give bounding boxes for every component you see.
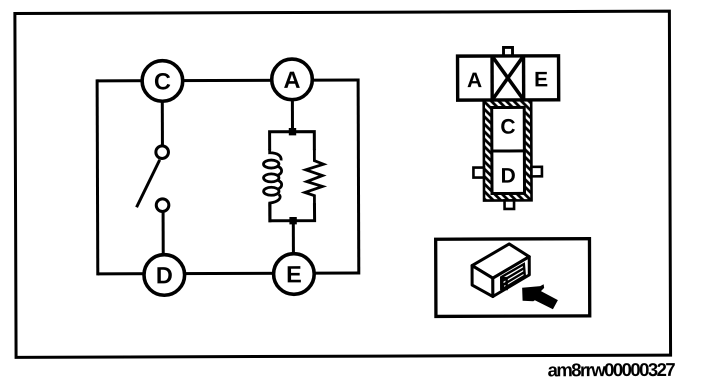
svg-text:C: C (500, 116, 515, 139)
connector tab right (531, 167, 542, 177)
svg-text:E: E (286, 261, 302, 287)
svg-text:D: D (156, 262, 173, 288)
switch S1 (136, 146, 169, 212)
connector housing top row (pins A / keyway / E) (458, 56, 559, 100)
wire: top segment C to A (loop top bar) (97, 78, 358, 82)
terminal C (142, 61, 183, 102)
wire: coil to bottom bar (268, 202, 271, 222)
wire: loop left side (96, 79, 100, 275)
wire: loop right side (357, 78, 361, 274)
terminal A (272, 59, 313, 100)
relay coil L1 (263, 149, 281, 206)
terminal D (144, 255, 185, 296)
relay illustration box (436, 239, 590, 317)
connector tab bottom (505, 200, 515, 209)
wire: parallel branch top bar (270, 132, 315, 151)
wire: C down to switch (161, 101, 164, 147)
junction: top node (289, 128, 296, 135)
junction: bottom node (289, 217, 296, 224)
relay connector detail (501, 264, 525, 289)
wire: switch to D (162, 211, 165, 254)
connector cavity C/D (492, 107, 525, 193)
connector cell divider left (490, 56, 494, 100)
relay body (3D view) (472, 244, 529, 297)
svg-text:E: E (534, 68, 548, 91)
svg-text:C: C (154, 68, 171, 94)
svg-text:A: A (467, 69, 482, 92)
connector tab left (473, 168, 484, 178)
wire: loop bottom bar D to E (98, 271, 359, 275)
wire: node to E (292, 221, 295, 254)
wire: parallel branch bottom bar (270, 203, 315, 221)
svg-text:D: D (501, 165, 516, 188)
connector cavity divider (492, 149, 524, 152)
connector cell divider right (522, 56, 526, 100)
terminal E (274, 254, 315, 295)
connector body (hatched housing) (484, 100, 532, 201)
wire: A down to node (291, 100, 294, 131)
connector tab top (504, 47, 513, 56)
svg-text:A: A (283, 67, 300, 93)
svg-text:am8rrw00000327: am8rrw00000327 (548, 359, 676, 380)
connector keyway X (492, 56, 524, 100)
resistor R1 (305, 149, 324, 205)
arrow pointer (522, 284, 558, 309)
